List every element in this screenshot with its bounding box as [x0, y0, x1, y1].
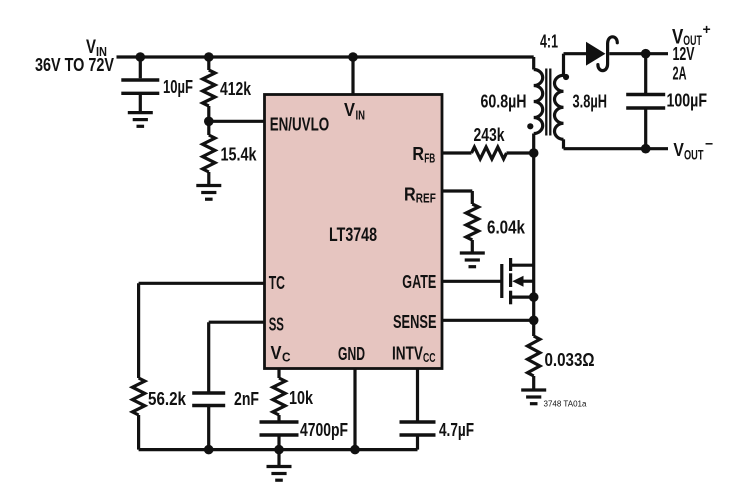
capacitor 4.7µF — [400, 422, 436, 450]
op-amp U1 LT3748 controller body — [265, 95, 443, 369]
ground below rail — [267, 450, 292, 481]
svg-text:3748 TA01a: 3748 TA01a — [544, 399, 587, 409]
node dot VOUT+ junction — [641, 49, 651, 59]
svg-text:2A: 2A — [673, 64, 687, 84]
svg-text:SENSE: SENSE — [393, 311, 437, 332]
412k value — [220, 79, 252, 99]
wire EN/UVLO — [209, 120, 265, 123]
svg-text:EN/UVLO: EN/UVLO — [270, 114, 330, 135]
wire 243k to primary node — [507, 151, 534, 154]
svg-text:V: V — [271, 342, 283, 363]
svg-text:+: + — [703, 21, 711, 37]
svg-text:15.4k: 15.4k — [221, 145, 258, 165]
C1 value 10µF — [163, 77, 193, 97]
ground below 6.04k — [460, 253, 485, 267]
pin label EN/UVLO — [270, 114, 330, 135]
svg-text:3.8µH: 3.8µH — [573, 92, 608, 112]
node VIN input label — [86, 37, 107, 59]
node dot SS rail — [204, 445, 214, 455]
pin label GND — [338, 343, 365, 364]
svg-text:INTV: INTV — [392, 343, 423, 364]
pin label SS — [269, 313, 284, 334]
pin label INTVCC — [392, 343, 436, 366]
phase dot primary — [527, 123, 533, 129]
U1 label LT3748 — [329, 225, 377, 246]
node dot MOSFET source — [529, 292, 539, 302]
wire secondary to diode — [564, 52, 588, 55]
svg-text:12V: 12V — [673, 44, 695, 64]
wire diode to output — [609, 52, 668, 55]
node dot at R1 tap — [204, 52, 214, 62]
svg-text:IN: IN — [356, 108, 366, 123]
capacitor 2nF — [192, 393, 225, 450]
svg-text:243k: 243k — [474, 125, 506, 145]
wire SENSE — [442, 319, 534, 322]
node dot at C1 tap — [136, 52, 146, 62]
svg-text:6.04k: 6.04k — [487, 218, 526, 238]
node dot at VIN pin tap — [348, 52, 358, 62]
pin label RFB — [412, 143, 435, 165]
pin label GATE — [402, 271, 436, 292]
svg-text:V: V — [344, 99, 356, 120]
2nF value — [234, 389, 259, 409]
resistor 56.2k — [132, 378, 144, 450]
svg-text:60.8µH: 60.8µH — [481, 92, 527, 112]
svg-text:SS: SS — [269, 313, 284, 334]
svg-text:GATE: GATE — [402, 271, 436, 292]
svg-text:V: V — [673, 139, 684, 160]
resistor 6.04k — [466, 204, 478, 252]
svg-text:36V TO 72V: 36V TO 72V — [35, 55, 114, 75]
wire GATE — [442, 280, 502, 283]
svg-text:4:1: 4:1 — [540, 32, 558, 52]
ground below sense resistor — [521, 390, 546, 404]
ground below C1 — [128, 113, 153, 127]
node dot SENSE junction — [529, 316, 539, 326]
wire INTVCC pin — [416, 369, 419, 421]
243k value — [474, 125, 506, 145]
resistor 243k — [472, 147, 507, 159]
node dot primary/RFB junction — [529, 148, 539, 158]
svg-text:0.033Ω: 0.033Ω — [545, 350, 595, 370]
node dot VC rail — [274, 445, 284, 455]
transformer core — [546, 69, 550, 136]
svg-text:2nF: 2nF — [234, 389, 259, 409]
10k value — [289, 388, 314, 408]
pin label TC — [269, 272, 285, 293]
capacitor 4700pF — [260, 422, 299, 450]
4700pF value — [300, 420, 348, 440]
wire secondary bottom to VOUT- — [564, 147, 669, 150]
diode D1 — [587, 37, 618, 71]
node dot VOUT- junction — [641, 144, 651, 154]
wire top rail VIN — [117, 55, 534, 58]
svg-text:10k: 10k — [289, 388, 314, 408]
wire VIN pin — [351, 57, 354, 95]
figure id 3748 TA01a — [544, 399, 587, 409]
svg-text:CC: CC — [423, 350, 436, 365]
capacitor C1 10uF — [121, 57, 159, 112]
15.4k value — [221, 145, 258, 165]
svg-text:56.2k: 56.2k — [148, 389, 187, 409]
wire SS — [209, 322, 265, 391]
6.04k value — [487, 218, 526, 238]
capacitor C2 100uF — [626, 54, 665, 149]
pin label RREF — [404, 183, 436, 205]
wire RFB to 243k — [442, 151, 472, 154]
svg-text:10µF: 10µF — [163, 77, 193, 97]
wire drain column — [532, 153, 535, 336]
node VOUT+ label — [672, 21, 711, 48]
svg-text:412k: 412k — [220, 79, 252, 99]
svg-text:−: − — [705, 135, 713, 151]
svg-text:TC: TC — [269, 272, 285, 293]
phase dot secondary — [563, 74, 569, 80]
node VOUT- label — [673, 135, 713, 162]
svg-text:C: C — [282, 350, 291, 365]
wire bottom rail — [139, 448, 418, 451]
svg-text:R: R — [404, 183, 416, 204]
svg-text:LT3748: LT3748 — [329, 225, 377, 246]
ground below 15.4k — [196, 186, 221, 200]
resistor 15.4k — [203, 121, 215, 185]
wire RREF — [442, 191, 472, 204]
svg-text:REF: REF — [416, 191, 436, 206]
node dot divider tap — [204, 117, 214, 127]
resistor 0.033ohm — [528, 336, 540, 389]
transistor Q1 NMOS — [502, 258, 534, 304]
wire VC pin — [277, 369, 280, 379]
wire TC — [139, 283, 265, 378]
pin label VC — [271, 342, 292, 365]
resistor 412k — [203, 57, 215, 121]
3.8µH value — [573, 92, 608, 112]
svg-text:OUT: OUT — [684, 147, 704, 162]
56.2k value — [148, 389, 187, 409]
label 2A — [673, 64, 687, 84]
4.7µF value — [439, 420, 474, 440]
label 12V — [673, 44, 695, 64]
svg-text:R: R — [412, 143, 424, 164]
0.033Ω value — [545, 350, 595, 370]
transformer T1 secondary winding 3.8uH — [555, 54, 564, 149]
svg-text:100µF: 100µF — [667, 91, 708, 111]
resistor 10k — [273, 378, 285, 421]
60.8µH value — [481, 92, 527, 112]
node dot GND rail — [350, 445, 360, 455]
label 36V TO 72V — [35, 55, 114, 75]
svg-text:FB: FB — [424, 150, 435, 165]
svg-text:4700pF: 4700pF — [300, 420, 348, 440]
transformer T1 primary winding 60.8uH — [534, 57, 543, 153]
100µF value — [667, 91, 708, 111]
pin label SENSE — [393, 311, 437, 332]
T1 ratio 4:1 — [540, 32, 558, 52]
wire GND pin — [353, 369, 356, 450]
pin label VIN — [344, 99, 365, 123]
svg-text:4.7µF: 4.7µF — [439, 420, 474, 440]
svg-text:GND: GND — [338, 343, 365, 364]
